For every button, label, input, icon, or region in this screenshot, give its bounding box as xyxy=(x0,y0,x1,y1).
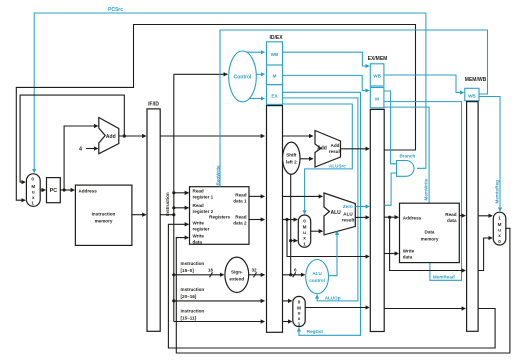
wire ALUOp control xyxy=(283,98,358,301)
wire write register number (MEM/WB to Registers Write register) xyxy=(168,224,495,348)
svg-text:WB: WB xyxy=(373,74,381,79)
wire ALUSrc control xyxy=(283,104,353,214)
wire Read data 2 to ALUSrc mux xyxy=(283,219,298,221)
svg-text:ALUSrc: ALUSrc xyxy=(329,164,346,169)
wire RegDst control xyxy=(283,92,361,335)
wire instruction [20-16] to ID/EX xyxy=(172,299,264,302)
svg-text:x: x xyxy=(303,236,306,241)
wire sign-extend output to ID/EX xyxy=(249,268,265,278)
svg-text:Write: Write xyxy=(193,221,205,226)
svg-text:32: 32 xyxy=(252,268,258,273)
svg-text:16: 16 xyxy=(208,268,214,273)
svg-text:Sign-: Sign- xyxy=(231,269,243,274)
svg-text:MEM/WB: MEM/WB xyxy=(465,77,487,83)
wire Read data MEM/WB to mux input 1 xyxy=(478,215,492,217)
svg-text:Address: Address xyxy=(403,215,422,220)
svg-text:Add: Add xyxy=(317,145,327,151)
wire Read data 1 to ID/EX xyxy=(249,195,264,197)
svg-text:data: data xyxy=(193,239,203,244)
wire mux to PC xyxy=(40,189,45,191)
wire PCSrc net (AND gate output to PC mux select) xyxy=(34,7,426,172)
mux M1 (PC source mux) xyxy=(26,174,40,207)
wire instruction bus vertical xyxy=(173,74,175,321)
wire Control to ID/EX EX xyxy=(249,98,264,100)
constant 4 into Add xyxy=(79,147,98,153)
wire EX/MEM WB to MEM/WB WB xyxy=(384,75,464,93)
svg-text:ALU: ALU xyxy=(312,271,322,276)
wire Branch control to AND gate xyxy=(384,91,397,164)
svg-text:data 2: data 2 xyxy=(233,221,247,226)
memory Instruction memory xyxy=(75,185,131,245)
svg-text:u: u xyxy=(303,230,306,235)
wire ALU control to ALU xyxy=(329,232,338,276)
wire PC+4 ID/EX to branch Add xyxy=(283,135,313,137)
svg-text:ALUOp: ALUOp xyxy=(325,295,341,300)
svg-text:[15–0]: [15–0] xyxy=(181,268,195,273)
register PC xyxy=(47,178,61,203)
svg-text:M: M xyxy=(31,184,35,189)
svg-text:data: data xyxy=(447,218,457,223)
wire instruction [20-16] ID/EX to RegDst mux input 0 xyxy=(283,300,292,302)
mux M2 (ALUSrc mux) xyxy=(298,215,310,247)
svg-text:Zero: Zero xyxy=(343,204,353,209)
wire instruction to Read register 2 xyxy=(174,207,189,209)
svg-text:Instruction: Instruction xyxy=(165,192,170,216)
wire ALUSrc mux to ALU xyxy=(311,230,323,232)
svg-text:1: 1 xyxy=(498,216,501,221)
label Instruction [20-16] xyxy=(181,287,205,299)
svg-text:control: control xyxy=(309,278,325,283)
wire ALU result to EX/MEM xyxy=(355,216,369,218)
svg-text:Data: Data xyxy=(425,230,435,235)
svg-text:Instruction: Instruction xyxy=(181,261,205,266)
memory Data memory xyxy=(400,203,460,262)
wire shift left 2 to branch Add xyxy=(300,158,313,160)
svg-text:Branch: Branch xyxy=(400,154,416,159)
wire RegDst mux to EX/MEM (write register number) xyxy=(305,307,369,309)
svg-text:M: M xyxy=(273,74,277,79)
wire ALU result MEM/WB to mux input 0 xyxy=(478,238,492,271)
svg-text:Instruction: Instruction xyxy=(92,212,116,217)
svg-text:Read: Read xyxy=(235,215,246,220)
svg-text:register 2: register 2 xyxy=(193,209,214,214)
node ALU result branch xyxy=(388,216,391,219)
svg-text:MemWrite: MemWrite xyxy=(423,178,428,200)
wire RegWrite control (MEM/WB WB back to Registers) xyxy=(220,30,488,187)
wire Read data 2 to ID/EX xyxy=(249,219,264,221)
svg-text:WB: WB xyxy=(271,52,279,57)
wire ID/EX WB to EX/MEM WB xyxy=(283,52,370,66)
svg-text:M: M xyxy=(498,222,502,227)
wire branch target (EX/MEM to PC mux input 1) xyxy=(16,25,415,201)
wire ID/EX M to EX/MEM M xyxy=(283,75,370,90)
adder Add (PC+4) xyxy=(99,118,119,154)
node instruction bus feed xyxy=(172,213,175,216)
svg-text:Control: Control xyxy=(234,74,252,80)
svg-text:M: M xyxy=(375,96,379,101)
svg-text:PCSrc: PCSrc xyxy=(108,7,123,13)
svg-text:MemRead: MemRead xyxy=(433,274,455,279)
wire MemtoReg control to mux xyxy=(479,97,500,211)
svg-text:0: 0 xyxy=(298,299,301,304)
svg-text:1: 1 xyxy=(31,200,34,205)
node Add output junction xyxy=(123,134,126,137)
svg-text:Write: Write xyxy=(403,249,415,254)
svg-text:Add: Add xyxy=(331,143,340,148)
svg-text:1: 1 xyxy=(298,322,301,327)
svg-text:x: x xyxy=(32,195,35,200)
svg-text:x: x xyxy=(498,233,501,238)
svg-text:Shift: Shift xyxy=(286,153,297,158)
svg-text:MemtoReg: MemtoReg xyxy=(494,180,499,204)
svg-text:ALU: ALU xyxy=(343,212,353,217)
wire write data EX/MEM to data memory xyxy=(384,253,398,255)
wire MemRead control xyxy=(384,102,462,281)
svg-text:data: data xyxy=(403,255,413,260)
pipeline register ID/EX xyxy=(267,35,284,332)
mux M3 (RegDst mux) xyxy=(293,296,305,326)
node PC line junction xyxy=(63,188,66,191)
svg-text:memory: memory xyxy=(95,219,113,224)
wire Zero from EX/MEM to AND gate xyxy=(384,173,396,205)
svg-text:result: result xyxy=(342,218,355,223)
svg-text:EX/MEM: EX/MEM xyxy=(368,56,388,62)
svg-text:Instruction: Instruction xyxy=(181,287,205,292)
wire PC+4 to PC mux input 0 xyxy=(20,95,124,182)
wire ALU result EX/MEM to data memory Address xyxy=(384,216,398,218)
label Instruction [15-11] xyxy=(181,309,205,321)
svg-text:Write: Write xyxy=(193,233,205,238)
svg-text:PC: PC xyxy=(50,188,58,194)
wire instruction to Control xyxy=(174,73,227,75)
svg-text:Read: Read xyxy=(193,189,204,194)
svg-text:left 2: left 2 xyxy=(286,160,297,165)
svg-text:result: result xyxy=(329,149,342,154)
svg-text:u: u xyxy=(32,190,35,195)
svg-text:register: register xyxy=(193,227,210,232)
svg-text:[20–16]: [20–16] xyxy=(181,294,197,299)
svg-text:IF/ID: IF/ID xyxy=(148,102,159,108)
pipeline register IF/ID xyxy=(147,102,160,332)
svg-text:data 1: data 1 xyxy=(233,198,247,203)
wire Zero to EX/MEM xyxy=(355,206,369,208)
control unit Control xyxy=(229,51,257,102)
svg-text:0: 0 xyxy=(31,177,34,182)
wire PC+4 through IF/ID to ID/EX xyxy=(160,135,264,137)
svg-text:extend: extend xyxy=(229,276,244,281)
svg-text:0: 0 xyxy=(303,218,306,223)
svg-text:Add: Add xyxy=(106,134,116,140)
svg-text:1: 1 xyxy=(303,242,306,247)
wire instruction memory to IF/ID xyxy=(132,214,146,216)
wire Read data 1 to ALU xyxy=(283,195,323,197)
wire PC to Add xyxy=(64,126,98,190)
svg-text:register 1: register 1 xyxy=(193,195,214,200)
svg-text:M: M xyxy=(303,225,307,230)
wire branch Add to EX/MEM xyxy=(341,148,370,150)
wire sign-extend to shift left 2 and ALUSrc mux xyxy=(289,174,297,274)
wire sign-extend value in EX xyxy=(283,268,305,278)
svg-text:EX: EX xyxy=(271,94,278,99)
adder Add (branch target) xyxy=(315,131,342,168)
svg-text:WB: WB xyxy=(468,94,476,99)
svg-text:RegDst: RegDst xyxy=(307,329,324,334)
wire Read data 2 to EX/MEM write data xyxy=(287,220,369,257)
alu ALU xyxy=(324,193,355,235)
svg-text:x: x xyxy=(298,316,301,321)
label Instruction [15-0] xyxy=(181,261,205,273)
wire Control to ID/EX WB xyxy=(247,51,265,53)
svg-text:ALU: ALU xyxy=(331,210,342,216)
svg-text:0: 0 xyxy=(498,239,501,244)
wire instruction [15-11] to ID/EX xyxy=(174,321,264,323)
svg-text:Registers: Registers xyxy=(209,215,230,220)
wire PC to instruction memory Address xyxy=(60,189,74,191)
wire Add output to IF/ID xyxy=(119,135,146,137)
svg-text:Read: Read xyxy=(445,212,456,217)
wire instruction [15-0] to sign-extend xyxy=(172,268,223,278)
alu control unit xyxy=(306,260,329,294)
shifter Shift left 2 xyxy=(283,142,300,174)
wire instruction [15-11] ID/EX to RegDst mux input 1 xyxy=(283,321,292,323)
pipeline register EX/MEM xyxy=(368,56,388,332)
svg-text:u: u xyxy=(498,228,501,233)
svg-text:Read: Read xyxy=(235,192,246,197)
wire instruction to Read register 1 xyxy=(174,192,189,194)
svg-text:Instruction: Instruction xyxy=(181,309,205,314)
mux M4 (MemtoReg mux) xyxy=(493,212,506,245)
pipeline register MEM/WB xyxy=(465,77,487,331)
wire write-back data (mux to Registers Write data) xyxy=(176,228,510,353)
wire data memory Read data to MEM/WB xyxy=(459,215,465,217)
wire MemWrite control xyxy=(384,107,429,203)
gate AND (branch and zero) xyxy=(397,161,415,177)
wire instruction out of IF/ID xyxy=(160,214,174,216)
svg-text:6: 6 xyxy=(294,268,297,273)
wire Control to ID/EX M xyxy=(256,73,264,75)
svg-text:ID/EX: ID/EX xyxy=(269,35,283,41)
wire write register number EX/MEM to MEM/WB xyxy=(384,308,465,310)
node Read data 2 branch xyxy=(285,218,288,221)
register file Registers xyxy=(190,187,250,245)
svg-text:4: 4 xyxy=(79,147,82,153)
svg-text:Read: Read xyxy=(193,203,204,208)
svg-text:Address: Address xyxy=(78,188,97,193)
svg-text:[15–11]: [15–11] xyxy=(181,316,197,321)
wire ALU result bypass to MEM/WB xyxy=(390,217,466,270)
svg-text:memory: memory xyxy=(421,237,439,242)
sign extender xyxy=(225,257,249,292)
